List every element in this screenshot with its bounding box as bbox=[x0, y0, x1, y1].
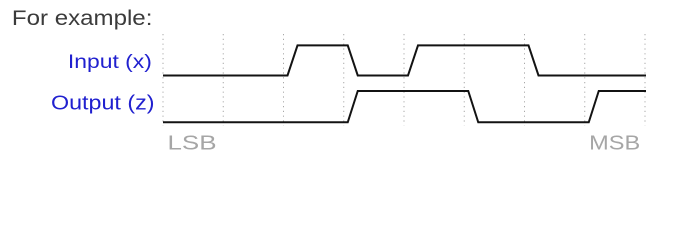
svg-text:For example:: For example: bbox=[12, 6, 153, 30]
svg-text:MSB: MSB bbox=[589, 131, 640, 154]
svg-text:Output (z): Output (z) bbox=[51, 92, 155, 114]
svg-text:LSB: LSB bbox=[168, 131, 217, 154]
svg-text:Input (x): Input (x) bbox=[68, 51, 152, 73]
